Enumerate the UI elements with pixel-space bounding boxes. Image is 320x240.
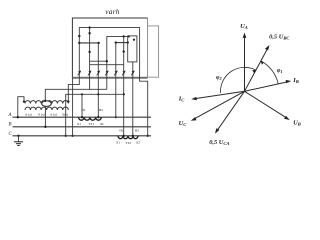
svg-text:IC: IC	[178, 96, 186, 103]
svg-text:UC: UC	[179, 120, 188, 127]
svg-text:И2: И2	[99, 108, 103, 112]
ground node on line C	[17, 135, 19, 137]
svg-text:φ2: φ2	[216, 75, 222, 81]
node TT2 i1	[123, 135, 125, 137]
node VT-B	[44, 126, 46, 128]
svg-text:ТТ1: ТТ1	[88, 122, 94, 126]
terminal arrow t2	[88, 70, 92, 75]
node loop2	[128, 35, 130, 37]
node CT1 left tap	[81, 93, 83, 95]
svg-text:Л1: Л1	[116, 141, 120, 145]
label phi1	[277, 68, 283, 74]
node E2 top	[123, 35, 125, 37]
wire VT left primary to line A	[18, 97, 24, 118]
node Hlow-C	[65, 135, 67, 137]
label 0,5UCA	[209, 139, 229, 146]
node bar2 right	[127, 41, 129, 43]
svg-text:IB: IB	[292, 77, 299, 84]
svg-text:varh: varh	[105, 7, 120, 16]
ground	[14, 142, 23, 146]
vector UA	[244, 37, 246, 92]
svg-text:φ1: φ1	[277, 68, 283, 74]
node VT left primary	[23, 100, 25, 102]
node VT middle	[44, 100, 46, 102]
svg-text:UA: UA	[240, 23, 248, 30]
node E1 low	[88, 51, 90, 53]
phase line C	[13, 135, 152, 137]
wire H low	[66, 94, 124, 136]
label UC	[179, 120, 188, 127]
terminal arrow t5	[114, 70, 118, 75]
vector IB	[245, 82, 288, 91]
node Hlow-E2	[123, 93, 125, 95]
svg-text:B: B	[9, 123, 12, 128]
node TT1 i2	[97, 116, 99, 118]
meter case (outer box)	[72, 18, 147, 78]
wire bar1 right drop to CT1	[97, 43, 99, 117]
node Hlow x CT1 wire	[97, 93, 99, 95]
vector 0,5UCA	[218, 91, 245, 129]
wire H1	[90, 60, 107, 62]
node E2 mid	[123, 50, 125, 52]
phase line B	[13, 126, 152, 128]
wire VT middle to line B	[44, 107, 46, 127]
phase line A	[13, 116, 152, 118]
node TT1 i1	[81, 116, 83, 118]
wire CT1 left secondary	[81, 94, 83, 117]
arc phi1	[261, 61, 278, 84]
label IC	[178, 96, 186, 103]
meter terminal cover (gray box extension)	[72, 26, 158, 77]
node rect top	[133, 39, 135, 41]
svg-text:А (а): А (а)	[50, 112, 57, 116]
node E1 top	[88, 26, 90, 28]
node W1 on line C	[147, 135, 149, 137]
vector UC	[195, 91, 245, 118]
node on line C	[71, 135, 73, 137]
label UA	[240, 23, 248, 30]
wire element1 center vertical	[89, 28, 91, 90]
node bar1 right	[98, 42, 100, 44]
node VT-A	[17, 116, 19, 118]
svg-text:0,5 UCA: 0,5 UCA	[209, 139, 229, 146]
node VT right primary	[67, 100, 69, 102]
wire loop2 top	[106, 36, 108, 89]
node H1 right	[106, 60, 108, 62]
node bar1 left	[78, 42, 80, 44]
wire rect to TT2	[132, 62, 134, 136]
vector IC	[195, 91, 244, 98]
node E1 stub	[78, 35, 80, 37]
terminal arrow t7	[131, 70, 135, 75]
wire H2	[90, 64, 124, 66]
wire H mid to VT middle	[45, 89, 107, 101]
voltage transformer secondary winding	[25, 107, 68, 110]
terminal arrow t4	[105, 70, 109, 75]
svg-text:Л2: Л2	[136, 141, 140, 145]
terminal arrow t1	[78, 70, 82, 75]
VT middle oval	[42, 101, 52, 107]
svg-text:A: A	[8, 113, 12, 118]
ground wire	[18, 136, 20, 142]
node E1 mid	[88, 32, 90, 34]
wire bar2 left drop	[115, 43, 117, 118]
node E2left-A	[115, 116, 117, 118]
wire terminal 1 to VT right primary	[68, 78, 79, 102]
wire current bar 1	[79, 42, 98, 44]
svg-text:C: C	[9, 132, 13, 137]
svg-text:Х (х): Х (х)	[38, 112, 45, 116]
svg-text:А (а): А (а)	[25, 112, 32, 116]
label UB	[293, 120, 301, 127]
current transformer TT2 winding	[118, 136, 138, 139]
label 0,5UBC	[269, 34, 290, 41]
svg-text:0,5 UBC: 0,5 UBC	[269, 34, 290, 41]
svg-text:Л1: Л1	[77, 122, 81, 126]
svg-text:ТТ2: ТТ2	[125, 141, 131, 145]
label phi2	[216, 75, 222, 81]
node bar2 left	[115, 41, 117, 43]
svg-text:UB: UB	[293, 120, 301, 127]
arc phi2	[221, 67, 257, 93]
vector 0.5UBC	[245, 49, 268, 91]
wire left edge drop to line C	[72, 78, 74, 136]
terminal arrow t3	[97, 70, 101, 75]
svg-text:Х(х): Х(х)	[62, 112, 68, 116]
wire element2 center vertical	[123, 36, 125, 135]
terminal arrow t6	[122, 70, 126, 75]
svg-text:И2: И2	[135, 128, 139, 132]
label IB	[292, 77, 299, 84]
current transformer TT1 winding	[79, 117, 102, 120]
node TT2 i2	[132, 135, 134, 137]
svg-text:И1: И1	[81, 108, 85, 112]
wire current bar 2	[116, 42, 128, 44]
voltage transformer primary winding	[25, 101, 68, 104]
svg-text:И1: И1	[119, 128, 123, 132]
vector UB	[245, 91, 287, 117]
wire W1 top loop	[79, 28, 147, 136]
wire bar2 right drop to CT2	[128, 36, 137, 62]
svg-text:Л2: Л2	[100, 122, 104, 126]
